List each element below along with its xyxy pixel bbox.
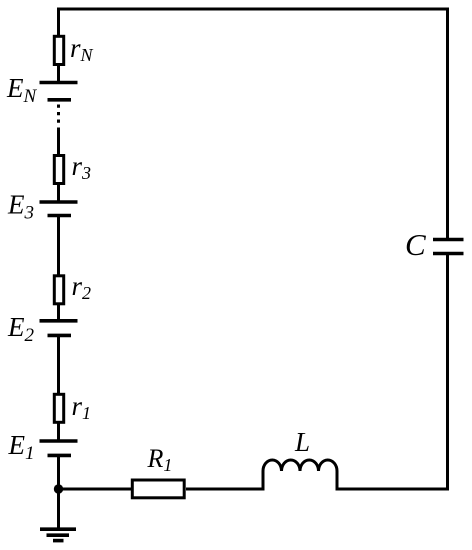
svg-text:L: L	[294, 427, 310, 457]
svg-text:C: C	[405, 227, 426, 262]
